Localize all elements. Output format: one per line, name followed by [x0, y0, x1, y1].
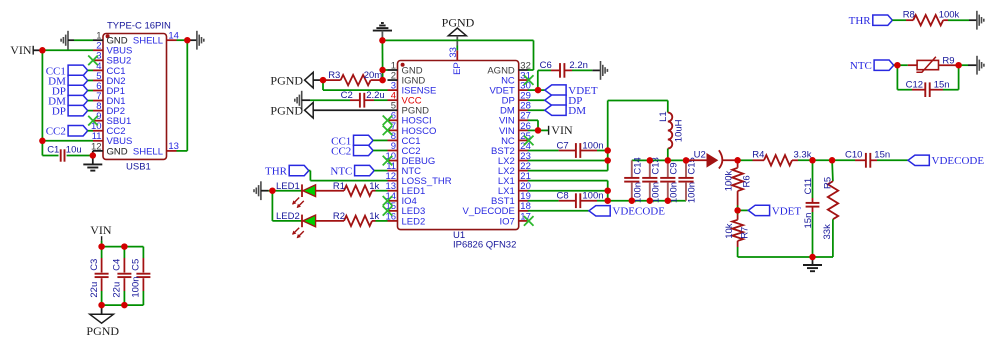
svg-text:THR: THR — [265, 166, 288, 178]
svg-text:10uH: 10uH — [674, 119, 685, 142]
svg-text:NTC: NTC — [330, 166, 352, 178]
svg-text:100k: 100k — [724, 170, 735, 191]
wire LED vertical — [271, 191, 273, 221]
capacitor C9 100n — [667, 160, 669, 177]
net flag CC2 (U1 pin9) — [354, 145, 374, 155]
node junction — [184, 37, 191, 44]
node junction — [379, 67, 386, 74]
wire to ground — [592, 69, 600, 71]
pin 10 CC2 (USB1) — [93, 130, 103, 132]
node junction — [121, 302, 128, 309]
net flag THR (R8) — [873, 15, 893, 25]
pin 9 CC2 (U1) — [388, 149, 398, 151]
svg-text:R6: R6 — [742, 175, 753, 187]
pin 12 LOSS_THR (U1) — [388, 180, 398, 182]
wire to VBUS pin11 — [42, 140, 93, 142]
net flag DP (USB pin 6) — [68, 85, 88, 95]
wire to ground — [969, 19, 977, 21]
svg-text:R2: R2 — [333, 211, 345, 222]
capacitor C4 22u — [123, 247, 125, 258]
net flag DM (U1 pin28) — [528, 109, 545, 111]
ground (top inverted) — [373, 30, 392, 32]
pin 12 GND (USB1) — [93, 150, 103, 152]
pin 8 DP2 (USB1) — [93, 110, 103, 112]
node junction — [683, 157, 690, 164]
LED LED1 — [301, 184, 303, 197]
resistor R4 3.3k — [738, 159, 753, 161]
svg-text:C9: C9 — [668, 162, 679, 174]
no-connect pin 25 (U1) — [524, 136, 534, 146]
pin 30 VDET (U1) — [519, 89, 529, 91]
node junction — [39, 138, 46, 145]
svg-text:C1: C1 — [47, 145, 59, 156]
inductor L1 10uH — [608, 100, 668, 102]
pin 2 VBUS (USB1) — [93, 49, 103, 51]
capacitor C13 100n — [649, 160, 651, 177]
svg-text:EP: EP — [452, 62, 463, 75]
svg-text:10u: 10u — [66, 145, 82, 156]
net flag DM (USB pin 7) — [68, 95, 88, 105]
net flag CC1 (USB pin 4) — [68, 65, 88, 75]
node junction — [39, 47, 46, 54]
net flag DM (USB pin 5) — [68, 75, 88, 85]
ground (divider) — [812, 257, 814, 265]
svg-text:CC2: CC2 — [46, 126, 66, 138]
wire output top bus — [632, 159, 686, 161]
node junction — [90, 152, 97, 159]
ground (USB GND) — [92, 156, 94, 165]
svg-text:SHELL: SHELL — [133, 146, 163, 157]
node junction — [955, 62, 962, 69]
node junction — [734, 207, 741, 214]
node junction — [829, 157, 836, 164]
pin 20 LX1 (U1) — [519, 190, 529, 192]
node junction — [535, 87, 542, 94]
net flag DP (USB pin 8) — [68, 105, 88, 115]
wire divider bottom bus — [738, 256, 833, 258]
svg-text:DP: DP — [52, 106, 66, 118]
svg-text:100k: 100k — [939, 10, 960, 21]
svg-text:C3: C3 — [89, 259, 100, 271]
svg-text:PGND: PGND — [270, 104, 303, 118]
pin 17 IO7 (U1) — [519, 220, 529, 222]
svg-text:L1: L1 — [658, 111, 669, 122]
connector USB1 TYPE-C 16PIN — [103, 34, 167, 160]
svg-text:GND: GND — [107, 36, 128, 47]
resistor R8 100k — [892, 19, 906, 21]
svg-text:3.3k: 3.3k — [794, 150, 812, 161]
node junction — [894, 62, 901, 69]
svg-text:C8: C8 — [557, 191, 569, 202]
svg-text:LED2: LED2 — [276, 211, 300, 222]
node junction — [809, 157, 816, 164]
node junction — [535, 127, 542, 134]
pin 5 DN2 (USB1) — [93, 79, 103, 81]
svg-text:100n: 100n — [582, 191, 603, 202]
pin 6 HOSCI (U1) — [388, 119, 398, 121]
op-amp U1 IP6826 QFN32 body — [398, 61, 519, 230]
capacitor C15 100n — [685, 160, 687, 177]
pin 25 NC (U1) — [519, 139, 529, 141]
net flag CC1 (U1 pin8) — [354, 135, 374, 145]
node junction — [665, 157, 672, 164]
wire LX1 pin20 — [528, 190, 608, 192]
svg-text:IO7: IO7 — [499, 216, 514, 227]
pin 19 BST1 (U1) — [519, 200, 529, 202]
resistor R1 1k — [316, 190, 344, 192]
wire LX1 pin21 — [528, 180, 608, 182]
svg-text:R4: R4 — [752, 150, 764, 161]
pin 24 BST2 (U1) — [519, 149, 529, 151]
svg-text:C10: C10 — [845, 150, 862, 161]
wire pin1 to ground — [68, 39, 74, 41]
svg-text:R5: R5 — [823, 177, 834, 189]
svg-text:PGND: PGND — [86, 324, 119, 338]
svg-text:IP6826 QFN32: IP6826 QFN32 — [453, 240, 516, 251]
wire ground to LEDs — [261, 190, 269, 192]
pin 21 LX1 (U1) — [519, 180, 529, 182]
no-connect pin 31 (U1) — [524, 75, 534, 85]
pin 11 NTC (U1) — [388, 170, 398, 172]
svg-text:2.2n: 2.2n — [569, 60, 588, 71]
pin 1 GND (U1) — [388, 69, 398, 71]
pin 16 LED2 (U1) — [388, 220, 398, 222]
pin 10 DEBUG (U1) — [388, 160, 398, 162]
pin 14 SHELL (USB1) — [167, 39, 177, 41]
svg-text:PGND: PGND — [270, 74, 303, 88]
svg-text:VIN: VIN — [90, 223, 112, 237]
wire output bottom bus — [608, 200, 686, 202]
node junction — [604, 157, 611, 164]
wire to LED2 — [272, 220, 302, 222]
net flag NTC (R9) — [874, 60, 894, 70]
pin 4 VCC (U1) — [388, 99, 398, 101]
svg-text:C14: C14 — [632, 157, 643, 174]
svg-text:NTC: NTC — [850, 60, 872, 72]
pin 26 VIN (U1) — [519, 129, 529, 131]
thermistor R9 — [897, 64, 907, 66]
ground (USB pin1) — [67, 31, 69, 50]
pin 4 CC1 (USB1) — [93, 69, 103, 71]
LED LED2 — [301, 215, 303, 228]
svg-text:1k: 1k — [369, 211, 379, 222]
node junction — [647, 197, 654, 204]
no-connect pin 10 (U1) — [383, 156, 393, 166]
pin 22 LX2 (U1) — [519, 170, 529, 172]
node junction — [121, 243, 128, 250]
wire down to GND pins — [381, 40, 383, 70]
wire — [74, 39, 93, 41]
pin 23 LX2 (U1) — [519, 160, 529, 162]
node junction — [647, 157, 654, 164]
no-connect pin 15 (U1) — [383, 206, 393, 216]
svg-text:C4: C4 — [112, 259, 123, 271]
svg-text:VIN: VIN — [551, 123, 573, 137]
net flag VDET (divider) — [738, 209, 749, 211]
svg-text:THR: THR — [849, 15, 872, 27]
svg-text:100n: 100n — [131, 276, 142, 297]
pin 32 AGND (U1) — [519, 69, 529, 71]
svg-text:R8: R8 — [903, 10, 915, 21]
resistor R7 10k — [737, 210, 739, 214]
wire THR to LOSS_THR — [309, 170, 311, 172]
resistor R5 33k — [831, 160, 834, 181]
node junction — [379, 37, 386, 44]
capacitor C5 100n — [142, 247, 144, 258]
resistor R2 1k — [316, 220, 344, 222]
node junction — [604, 197, 611, 204]
pin 9 SBU1 (USB1) — [93, 120, 103, 122]
node junction — [98, 302, 105, 309]
svg-text:C6: C6 — [540, 60, 552, 71]
svg-text:2.2u: 2.2u — [366, 90, 385, 101]
wire LX2 pin23 — [528, 160, 608, 162]
svg-text:PGND: PGND — [442, 16, 475, 30]
wire pin14 to ground — [177, 39, 188, 41]
pin 13 SHELL (USB1) — [167, 150, 177, 152]
svg-text:22u: 22u — [112, 282, 123, 298]
wire to ground — [968, 64, 977, 66]
svg-text:LED1: LED1 — [276, 181, 300, 192]
wire LX1 riser — [607, 181, 609, 201]
pin 11 VBUS (USB1) — [93, 140, 103, 142]
capacitor C6 2.2n — [537, 70, 539, 90]
wire PGND to R3 — [313, 79, 323, 81]
wire AGND pin32 riser — [533, 40, 535, 70]
svg-text:VDECODE: VDECODE — [932, 155, 985, 167]
net flag DP (U1 pin29) — [528, 99, 545, 101]
resistor R6 100k — [737, 160, 739, 168]
node junction — [629, 197, 636, 204]
wire LX2 riser — [607, 101, 609, 171]
pin 28 DM (U1) — [519, 109, 529, 111]
wire pin13 — [177, 150, 188, 152]
capacitor C1 10u — [42, 155, 58, 157]
wire PGND to pin5 — [313, 109, 387, 111]
svg-text:DM: DM — [568, 105, 586, 117]
svg-text:1k: 1k — [369, 181, 379, 192]
wire AGND top net — [382, 39, 533, 41]
pin 3 SBU2 (USB1) — [93, 59, 103, 61]
svg-text:LED2: LED2 — [402, 216, 426, 227]
svg-text:C5: C5 — [131, 259, 142, 271]
wire VBUS pin2 — [42, 49, 93, 51]
pin 29 DP (U1) — [519, 99, 529, 101]
wire to ground symbol — [187, 39, 197, 41]
ground (LEDs) — [260, 181, 262, 200]
pin 33 EP (U1) — [456, 50, 458, 60]
pin 13 LED1 (U1) — [388, 190, 398, 192]
svg-text:C11: C11 — [803, 178, 814, 195]
diode U2 — [686, 159, 707, 161]
ground (C2) — [301, 91, 303, 110]
capacitor C11 15n — [812, 160, 814, 198]
net flag VDECODE (output) — [908, 155, 929, 165]
svg-text:VDECODE: VDECODE — [612, 206, 665, 218]
node junction — [320, 77, 327, 84]
wire VIN to junction — [33, 49, 42, 51]
pin 14 IO4 (U1) — [388, 200, 398, 202]
node junction — [269, 187, 276, 194]
wire to LED1 — [268, 190, 302, 192]
wire shell vertical — [186, 40, 188, 151]
pin 2 IGND (U1) — [388, 79, 398, 81]
svg-text:GND: GND — [107, 146, 128, 157]
net flag CC2 (USB pin 10) — [68, 126, 88, 136]
wire top bus — [102, 246, 144, 248]
svg-text:R7: R7 — [739, 227, 750, 239]
no-connect pin3 SBU2 — [88, 56, 98, 66]
node junction — [604, 187, 611, 194]
svg-text:12: 12 — [91, 141, 102, 152]
net flag VDET (U1 pin30) — [528, 89, 538, 91]
pin 5 PGND (U1) — [388, 109, 398, 111]
no-connect pin 17 (U1) — [524, 216, 534, 226]
pin 18 V_DECODE (U1) — [519, 210, 529, 212]
wire VIN vertical — [41, 50, 43, 155]
node junction — [98, 243, 105, 250]
capacitor C14 100n — [631, 160, 633, 177]
capacitor C12 15n — [896, 65, 898, 90]
pin 27 VIN (U1) — [519, 119, 529, 121]
wire ground to C2 — [302, 99, 310, 101]
svg-text:USB1: USB1 — [126, 161, 151, 172]
pin 1 GND (USB1) — [93, 39, 103, 41]
svg-text:VIN: VIN — [10, 43, 32, 57]
power flag PGND (cap bank) — [101, 305, 103, 314]
no-connect pin 7 (U1) — [383, 126, 393, 136]
node junction — [734, 157, 741, 164]
no-connect pin 6 (U1) — [383, 116, 393, 126]
capacitor C2 2.2u — [310, 99, 350, 101]
net flag VDECODE (U1 pin18) — [528, 210, 589, 212]
pin 8 CC1 (U1) — [388, 139, 398, 141]
capacitor C3 22u — [101, 247, 103, 258]
wire pin1 GND — [383, 69, 388, 71]
wire pin12 gnd — [92, 151, 94, 156]
svg-text:100n: 100n — [582, 140, 603, 151]
node junction — [604, 147, 611, 154]
pin 31 NC (U1) — [519, 79, 529, 81]
svg-text:CC2: CC2 — [331, 145, 351, 157]
svg-text:100n: 100n — [687, 182, 698, 203]
wire ISENSE — [322, 80, 324, 90]
svg-text:U2: U2 — [694, 150, 706, 161]
svg-text:VDET: VDET — [772, 205, 802, 217]
svg-text:R3: R3 — [328, 70, 340, 81]
svg-text:15n: 15n — [803, 213, 814, 229]
no-connect pin9 SBU1 — [88, 116, 98, 126]
resistor R3 20m — [323, 79, 341, 81]
svg-text:SHELL: SHELL — [133, 36, 163, 47]
svg-text:C12: C12 — [906, 79, 923, 90]
wire R9 to ground — [959, 64, 968, 66]
svg-text:C2: C2 — [341, 90, 353, 101]
pin 7 HOSCO (U1) — [388, 129, 398, 131]
svg-text:33k: 33k — [822, 224, 833, 240]
pin 15 LED3 (U1) — [388, 210, 398, 212]
svg-text:10k: 10k — [724, 223, 735, 239]
pin 6 DP1 (USB1) — [93, 90, 103, 92]
no-connect pin 14 (U1) — [383, 196, 393, 206]
wire VIN down — [101, 241, 103, 247]
node junction — [665, 197, 672, 204]
svg-text:22u: 22u — [89, 282, 100, 298]
ground (R9) — [976, 56, 978, 75]
node junction — [809, 254, 816, 261]
capacitor C8 100n (BST1) — [528, 200, 559, 202]
power flag PGND (R3) — [305, 72, 314, 88]
svg-text:C7: C7 — [557, 140, 569, 151]
svg-text:TYPE-C 16PIN: TYPE-C 16PIN — [107, 20, 171, 31]
net flag THR (U1 pin12) — [289, 165, 309, 175]
capacitor C10 15n — [855, 159, 866, 161]
net label VIN (U1 pins 26 27) — [528, 119, 538, 121]
wire bottom bus — [102, 304, 144, 306]
svg-text:15n: 15n — [934, 79, 950, 90]
pin 3 ISENSE (U1) — [388, 89, 398, 91]
svg-text:R9: R9 — [942, 55, 954, 66]
pin 7 DN1 (USB1) — [93, 100, 103, 102]
wire LX2 pin22 — [528, 170, 608, 172]
svg-text:R1: R1 — [333, 181, 345, 192]
node junction — [379, 77, 386, 84]
capacitor C7 100n (BST2) — [528, 150, 559, 152]
net flag NTC (U1 pin11) — [355, 165, 375, 175]
power flag PGND (pin5) — [305, 102, 314, 118]
svg-text:15n: 15n — [874, 150, 890, 161]
